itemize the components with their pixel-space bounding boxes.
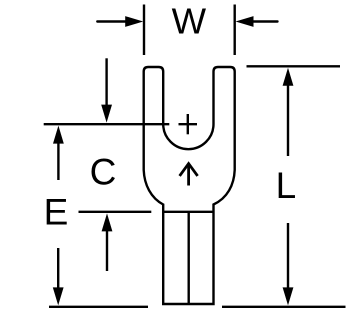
svg-text:L: L <box>276 165 297 206</box>
svg-text:C: C <box>90 152 117 193</box>
svg-text:E: E <box>44 192 69 233</box>
svg-text:W: W <box>172 1 207 42</box>
